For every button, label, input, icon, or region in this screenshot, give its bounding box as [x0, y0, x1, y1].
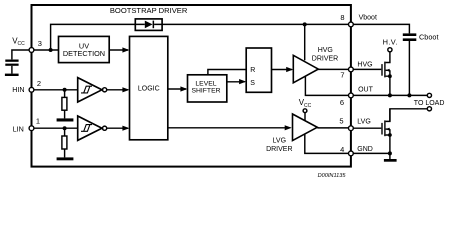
- terminal H.V.: [388, 48, 392, 52]
- wire GND external: [353, 152, 390, 154]
- flip-flop RS box: [246, 48, 271, 92]
- svg-text:R: R: [250, 67, 255, 74]
- pin 2 circle: [29, 87, 34, 92]
- transistor Q1 body arrow: [386, 69, 390, 71]
- bootstrap driver box: [135, 19, 162, 31]
- level shifter box: [188, 75, 227, 102]
- svg-text:LIN: LIN: [13, 124, 24, 133]
- capacitor Cboot plates: [403, 33, 417, 41]
- wire OUT external to load: [353, 94, 427, 96]
- svg-text:LOGIC: LOGIC: [138, 86, 160, 93]
- transistor Q1 channel bar: [384, 62, 385, 78]
- wire low-side drain to load: [390, 109, 427, 122]
- svg-text:7: 7: [340, 71, 344, 80]
- transistor Q2 source: [386, 129, 390, 153]
- inverting bubble U2: [103, 88, 107, 92]
- node GND junction: [388, 151, 392, 155]
- schmitt buffer U3 (LIN): [78, 116, 102, 140]
- svg-text:Cboot: Cboot: [419, 32, 438, 41]
- svg-text:S: S: [250, 80, 255, 87]
- svg-text:HIN: HIN: [12, 85, 24, 94]
- wire UV to logic: [109, 49, 128, 51]
- logic box: [130, 36, 168, 139]
- svg-text:2: 2: [37, 79, 41, 88]
- pin 6 circle: [349, 93, 354, 98]
- arrowhead U3 to logic: [122, 126, 129, 131]
- svg-text:GND: GND: [357, 146, 373, 153]
- pin 8 circle: [349, 22, 354, 27]
- wire Vcc external to decoupling cap: [12, 50, 32, 59]
- node Cboot on OUT: [407, 93, 411, 97]
- svg-text:OUT: OUT: [358, 87, 374, 94]
- svg-text:H.V.: H.V.: [383, 37, 398, 46]
- svg-text:3: 3: [38, 39, 42, 48]
- pin 4 circle: [349, 151, 354, 156]
- schmitt buffer U2 (HIN): [78, 78, 102, 102]
- capacitor C1 plates: [5, 60, 18, 66]
- svg-text:4: 4: [340, 145, 344, 154]
- wire logic to LVG driver: [168, 127, 290, 129]
- transistor Q2 gate bar: [381, 123, 382, 135]
- IC package outline: [32, 5, 351, 167]
- wire Vcc internal to UV detection: [32, 49, 59, 51]
- arrowhead logic to LVG driver: [285, 125, 292, 130]
- wire bootstrap output to pin 8: [162, 23, 351, 25]
- arrowhead logic to level shifter: [180, 86, 187, 91]
- wire Cboot to OUT node: [408, 41, 410, 95]
- svg-text:DRIVER: DRIVER: [312, 55, 338, 62]
- transistor Q2 channel bar: [384, 120, 385, 136]
- svg-text:DETECTION: DETECTION: [63, 49, 105, 58]
- node Vcc junction: [49, 48, 53, 52]
- terminal Vcc for LVG driver: [303, 109, 307, 113]
- terminal TO LOAD lower: [427, 107, 431, 111]
- wire HVG driver return to OUT pin 6: [305, 76, 350, 95]
- transistor Q1 source: [386, 70, 390, 95]
- transistor Q2 body arrow: [386, 128, 390, 130]
- svg-text:HVG: HVG: [318, 47, 333, 54]
- svg-text:TO LOAD: TO LOAD: [414, 100, 445, 107]
- wire LVG driver output to pin 5: [317, 127, 351, 129]
- wire cap to ground: [11, 66, 13, 74]
- svg-text:LVG: LVG: [357, 118, 371, 125]
- svg-text:6: 6: [340, 98, 344, 107]
- diode D1 cathode bar: [153, 21, 155, 29]
- wire Vboot external to Cboot: [353, 24, 409, 33]
- wire RS to HVG driver: [271, 69, 291, 71]
- arrowhead RS to HVG driver: [286, 67, 293, 72]
- svg-text:LVG: LVG: [273, 137, 287, 144]
- wire bootstrap supply branch: [51, 24, 136, 50]
- wire level shifter to R input: [208, 70, 246, 75]
- diode D1 anode: [145, 21, 153, 29]
- pin 3 circle: [29, 48, 34, 53]
- resistor R1: [64, 90, 66, 98]
- svg-text:DRIVER: DRIVER: [266, 146, 292, 153]
- wire HVG external gate: [353, 68, 381, 70]
- arrowhead S input: [239, 79, 246, 84]
- wire HVG driver output to pin 7: [318, 68, 351, 70]
- node high-side source on OUT: [388, 93, 392, 97]
- arrowhead U2 to logic: [122, 87, 129, 92]
- svg-text:D00IN1135: D00IN1135: [318, 173, 347, 179]
- transistor Q1 drain: [386, 52, 390, 63]
- svg-text:Vboot: Vboot: [359, 15, 377, 22]
- node Vboot-HVG junction: [303, 22, 307, 26]
- svg-text:8: 8: [340, 13, 344, 22]
- wire logic to level shifter: [168, 88, 186, 90]
- pin 7 circle: [349, 67, 354, 72]
- hysteresis glyph U2: [81, 86, 92, 93]
- ground symbol: [389, 153, 391, 159]
- arrowhead UV to logic: [122, 47, 129, 52]
- svg-text:SHIFTER: SHIFTER: [191, 87, 220, 94]
- wire U2 to logic: [107, 89, 128, 91]
- op-amp HVG driver triangle: [293, 55, 318, 83]
- wire HIN internal: [32, 89, 78, 91]
- node Q2 source-body: [388, 133, 392, 137]
- terminal TO LOAD upper: [427, 93, 431, 97]
- transistor Q1 gate bar: [381, 64, 382, 76]
- svg-text:1: 1: [36, 117, 40, 126]
- hysteresis glyph U3: [81, 125, 92, 132]
- pin 5 circle: [349, 126, 354, 131]
- wire U3 to logic: [107, 127, 128, 129]
- wire through bootstrap box: [135, 23, 162, 25]
- pin 1 circle: [29, 126, 34, 131]
- svg-text:HVG: HVG: [357, 61, 372, 68]
- wire level shifter to S input: [227, 81, 245, 83]
- transistor Q2 drain: [386, 109, 390, 122]
- wire LVG driver return to GND pin 4: [305, 134, 351, 153]
- ground bar under R1: [57, 118, 74, 121]
- resistor R2: [64, 128, 66, 136]
- node Q1 source-body: [388, 74, 392, 78]
- node HIN resistor tap: [63, 88, 67, 92]
- wire Vcc terminal to LVG driver: [304, 113, 306, 121]
- ground bar under C1: [5, 74, 19, 76]
- op-amp LVG driver triangle: [293, 114, 318, 141]
- UV detection box: [59, 36, 110, 62]
- wire HVG driver supply: [304, 24, 306, 60]
- svg-text:5: 5: [339, 116, 343, 125]
- wire LVG external gate: [353, 127, 381, 129]
- node LIN resistor tap: [63, 126, 67, 130]
- svg-text:BOOTSTRAP DRIVER: BOOTSTRAP DRIVER: [110, 6, 188, 15]
- inverting bubble U3: [103, 126, 107, 130]
- ground bar under R2: [57, 157, 74, 160]
- wire LIN internal: [32, 127, 78, 129]
